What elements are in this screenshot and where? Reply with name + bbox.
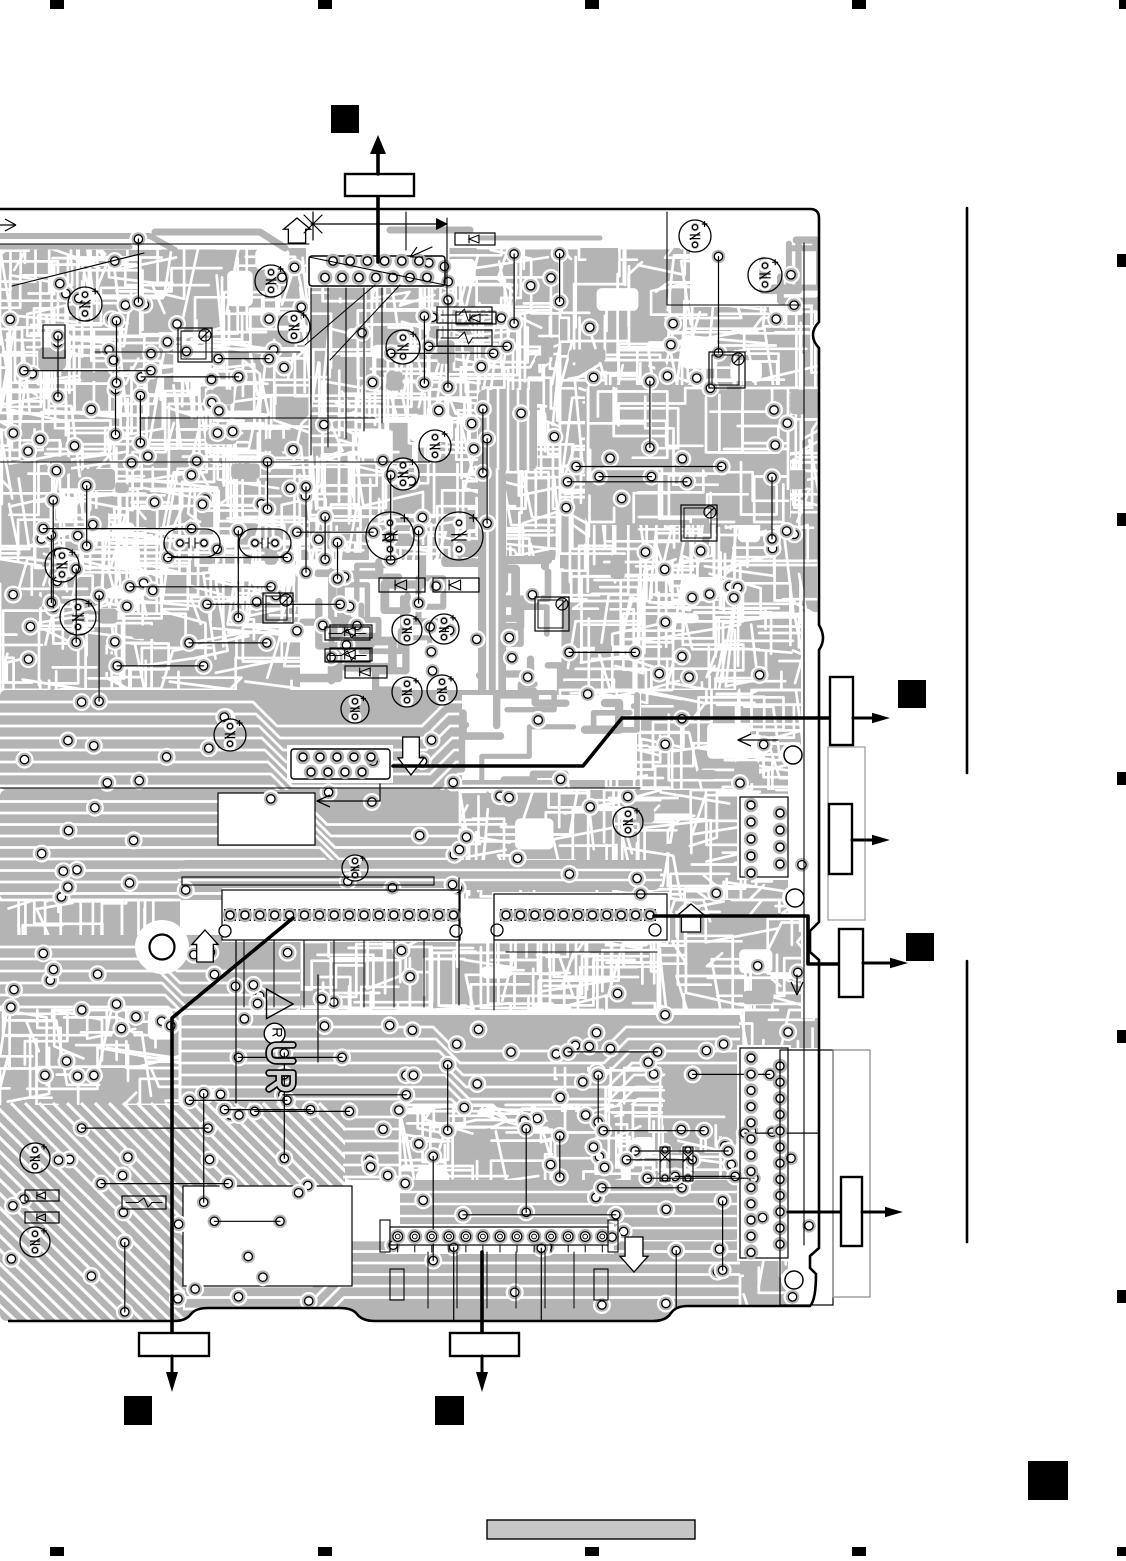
jumper wire W14 — [649, 381, 651, 447]
solder pads — [260, 310, 278, 328]
jumper wire W9 — [75, 569, 77, 642]
jumper wire W41 — [429, 345, 508, 347]
jumper wire W48 — [447, 1065, 449, 1131]
connector housing CN7 overhang — [828, 747, 865, 920]
capacitor C16 — [214, 719, 246, 751]
connector CN3 (16-pin row) — [222, 890, 460, 940]
jumper wire W11 — [115, 390, 117, 435]
jumper wire W57 — [214, 1220, 280, 1222]
UR recycle logo — [267, 989, 294, 1019]
callout box 3 with arrow — [829, 804, 852, 874]
capacitor C9 — [45, 548, 79, 582]
capacitor C21 — [20, 1143, 50, 1173]
capacitor C14 — [427, 675, 457, 705]
capacitor C6 — [387, 458, 419, 490]
connector CN5 (bottom 13-pin row) — [390, 1227, 608, 1245]
jumper wire W22 — [423, 316, 425, 383]
capacitor C23 — [164, 529, 220, 557]
jumper wire W51 — [675, 1251, 677, 1328]
jumper wire W66 — [693, 1073, 770, 1075]
jumper wire W62 — [225, 1109, 311, 1111]
capacitor C8 — [435, 512, 483, 560]
jumper wire W59 — [463, 1214, 616, 1216]
jumper wire W28 — [576, 466, 722, 468]
jumper wire W53 — [283, 1053, 285, 1158]
jumper wire W4 — [486, 439, 488, 524]
capacitor C10 — [60, 599, 96, 635]
jumper wire W29 — [117, 665, 203, 667]
jumper wire W69 — [603, 1130, 704, 1132]
diode D8 — [25, 1190, 59, 1201]
diode D7 — [330, 648, 372, 661]
resistor R2 — [325, 649, 370, 662]
jumper wire W37 — [297, 531, 373, 533]
wire lead to top callout 1 — [376, 196, 380, 262]
silkscreen lines — [12, 253, 144, 286]
jumper wire W47 — [453, 1247, 455, 1342]
jumper wire W45 — [432, 1156, 434, 1260]
capacitor C20 — [342, 855, 368, 881]
diode D6 — [330, 625, 372, 638]
capacitor C7 — [366, 512, 414, 560]
trimmer VR5 — [535, 597, 569, 631]
registration marks — [50, 0, 64, 9]
jumper wire W55 — [101, 1183, 228, 1185]
jumper wire W52 — [597, 1075, 599, 1122]
capacitor C13 — [392, 677, 422, 707]
mounting hole — [136, 921, 188, 973]
jumper wire W7 — [86, 486, 88, 546]
arrow up from callout 1 — [376, 154, 380, 174]
reference square D — [124, 1396, 152, 1425]
jumper wire W3 — [237, 531, 239, 618]
wire lead to bottom callout 6 — [480, 1252, 484, 1332]
connector CN2 (middle) — [291, 749, 390, 779]
jumper wire W30 — [130, 586, 271, 588]
jumper wire W33 — [43, 528, 191, 530]
jumper wire W24 — [447, 300, 449, 387]
diode D11 — [683, 1147, 693, 1181]
jumper wire W49 — [559, 1136, 561, 1177]
jumper wire W18 — [305, 487, 307, 573]
resistor R3 — [437, 307, 492, 323]
capacitor C22 — [20, 1227, 50, 1257]
jumper wire W12 — [267, 462, 269, 509]
capacitor C4 — [386, 330, 420, 364]
jumper wire W10 — [98, 595, 100, 701]
wire lead to callout 4 — [788, 1211, 840, 1214]
callout box 4 with arrow — [839, 929, 863, 997]
jumper wire W36 — [391, 352, 494, 354]
wire lead to callout 3 — [654, 916, 838, 964]
diode D1 — [379, 578, 425, 592]
jumper wire W31 — [24, 370, 151, 372]
jumper wire W58 — [82, 1127, 209, 1129]
callout box 1 (top) — [345, 174, 414, 196]
callout box 7 with arrow — [450, 1333, 519, 1356]
capacitor C1 — [68, 287, 102, 321]
jumper wire W34 — [599, 476, 651, 478]
wire lead to bottom callout 5 — [172, 918, 293, 1332]
capacitor C2 — [255, 265, 287, 297]
jumper wire W2 — [137, 239, 139, 302]
capacitor C17 — [679, 220, 711, 252]
PCB board body — [0, 209, 848, 1406]
capacitor C5 — [419, 430, 451, 462]
diode D3 — [345, 666, 387, 678]
connector mounting holes — [784, 746, 802, 764]
resistor R4 — [437, 330, 492, 346]
jumper wire W67 — [675, 1175, 735, 1177]
vertical rule 1 — [966, 208, 969, 773]
capacitor C11 — [392, 615, 422, 645]
reference square B — [898, 680, 926, 708]
jumper wire W38 — [569, 651, 635, 653]
trimmer VR1 — [178, 328, 212, 362]
diode D2 — [433, 578, 479, 592]
jumper wire W61 — [283, 1094, 406, 1096]
capacitor C12 — [429, 614, 459, 644]
callout box 5 with arrow — [841, 1177, 862, 1246]
jumper wire W70 — [635, 1150, 728, 1152]
connector bar outline — [182, 877, 434, 885]
jumper wire W15 — [482, 409, 484, 473]
trimmer VR3 — [681, 505, 717, 541]
jumper wire W40 — [568, 481, 688, 483]
jumper wire W26 — [513, 254, 515, 323]
jumper wire W54 — [525, 1129, 527, 1213]
resistor R5 — [122, 1196, 166, 1209]
trimmer VR2 — [709, 352, 745, 388]
capacitor C18 — [748, 258, 782, 292]
diode D5 — [456, 312, 496, 324]
board outline — [0, 209, 823, 1321]
jumper wire W19 — [116, 321, 118, 383]
diode D9 — [25, 1212, 59, 1223]
jumper wire W32 — [218, 358, 269, 360]
jumper wire W16 — [52, 500, 54, 608]
jumper wire W23 — [324, 517, 326, 560]
jumper wire W5 — [139, 396, 141, 443]
callout box 2 with arrow — [830, 677, 853, 745]
jumper wire W39 — [189, 642, 267, 644]
trimmer VR4 — [263, 593, 293, 623]
copper trace pattern texture — [0, 248, 310, 690]
jumper wire W68 — [647, 1177, 754, 1179]
vertical rule 2 — [966, 961, 969, 1242]
resistor R1 — [325, 627, 370, 640]
reference square E — [435, 1396, 464, 1425]
capacitor C15 — [341, 695, 369, 723]
connector CN1 (top) — [309, 256, 445, 286]
jumper wire W20 — [418, 531, 420, 604]
connector CN4 (11-pin row) — [494, 894, 667, 940]
jumper wire W65 — [602, 1187, 682, 1189]
direction arrow glyphs — [284, 218, 311, 243]
jumper wire W64 — [189, 1099, 287, 1101]
reference square F (large) — [1028, 1461, 1068, 1500]
jumper wire W1 — [390, 475, 392, 560]
diode D4 — [455, 233, 495, 245]
callout box 6 with arrow — [139, 1333, 209, 1356]
jumper wire W17 — [771, 477, 773, 539]
capacitor C19 — [613, 807, 643, 837]
capacitor C24 — [239, 529, 291, 557]
jumper wire W13 — [559, 254, 561, 302]
jumper wire W35 — [207, 603, 340, 605]
reference square C — [906, 933, 934, 961]
jumper wire W56 — [255, 1110, 350, 1112]
jumper wire W46 — [722, 1201, 724, 1270]
jumper wire W21 — [50, 535, 52, 602]
connector CN6 (right edge vertical) — [740, 1048, 788, 1258]
reference square A — [331, 105, 359, 133]
title block box — [487, 1520, 695, 1539]
jumper wire W25 — [57, 336, 59, 397]
jumper wire W42 — [168, 557, 287, 559]
diode D10 — [660, 1147, 670, 1181]
jumper wire W50 — [540, 1248, 542, 1344]
connector CN7 (right edge 2x5) — [740, 797, 788, 877]
jumper wire W6 — [718, 257, 720, 353]
jumper wire W44 — [203, 1094, 205, 1203]
jumper wire W71 — [745, 1132, 839, 1134]
jumper wire W60 — [238, 1056, 342, 1058]
connector housing CN6 overhang — [780, 1050, 833, 1305]
jumper wire W63 — [568, 1051, 658, 1053]
jumper wire W43 — [124, 1243, 126, 1312]
jumper wire W72 — [627, 1159, 693, 1161]
jumper wire W27 — [141, 376, 239, 378]
wire lead to callout 2 — [393, 718, 829, 766]
capacitor C3 — [278, 311, 310, 343]
jumper wire W8 — [337, 543, 339, 579]
